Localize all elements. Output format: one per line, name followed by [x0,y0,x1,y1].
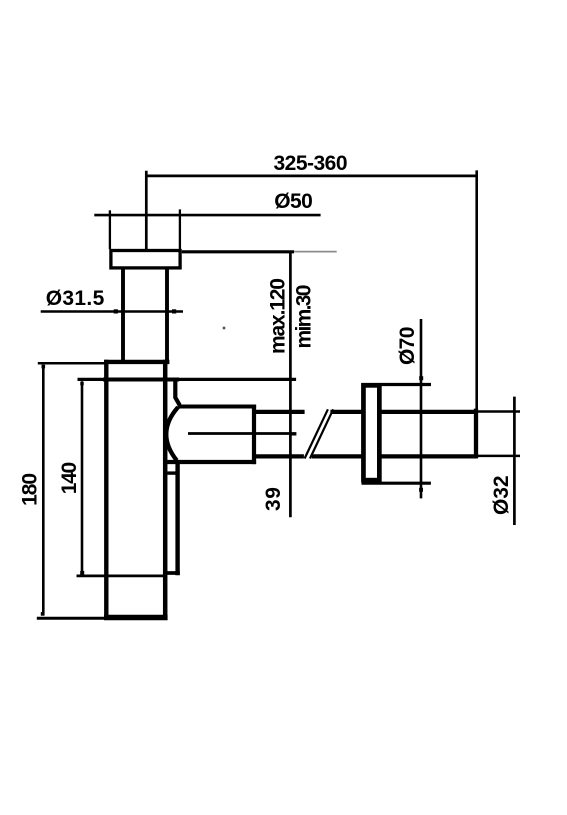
svg-text:140: 140 [58,462,81,495]
svg-text:Ø32: Ø32 [490,475,513,515]
svg-text:325-360: 325-360 [274,152,348,175]
svg-text:180: 180 [19,473,42,506]
svg-text:Ø31.5: Ø31.5 [46,287,105,310]
svg-text:max.120: max.120 [267,278,290,354]
svg-text:39: 39 [262,487,285,511]
svg-text:Ø70: Ø70 [396,327,419,366]
svg-text:Ø50: Ø50 [274,190,313,213]
svg-text:mim.30: mim.30 [293,285,316,349]
